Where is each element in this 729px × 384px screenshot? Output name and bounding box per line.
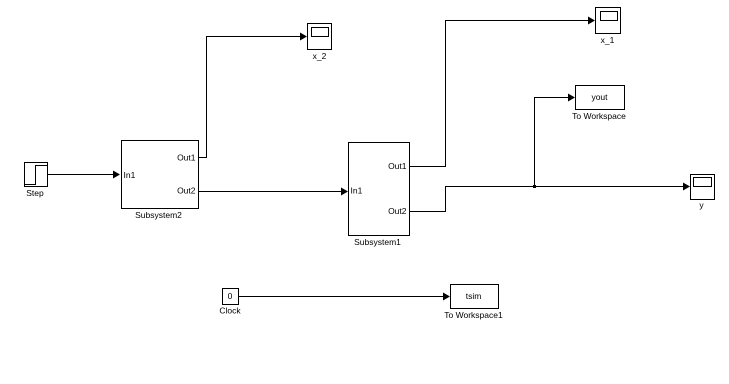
block scope x_2: [308, 24, 332, 50]
wire Subsystem1 Out1 to scope x_1: [409, 17, 595, 167]
pin Out1 of Subsystem2: [177, 153, 196, 163]
block tsim To Workspace1: [451, 285, 499, 309]
label To Workspace: [572, 111, 626, 121]
svg-text:tsim: tsim: [466, 291, 482, 301]
pin In1 of Subsystem1: [351, 186, 363, 196]
label Step: [26, 188, 44, 198]
svg-text:Out1: Out1: [177, 153, 196, 163]
block yout To Workspace: [576, 86, 625, 110]
svg-text:Step: Step: [26, 188, 44, 198]
block scope y: [691, 175, 715, 200]
block Clock: [223, 289, 239, 305]
svg-text:To Workspace1: To Workspace1: [444, 310, 503, 320]
pin In1 of Subsystem2: [124, 170, 136, 180]
label To Workspace1: [444, 310, 503, 320]
svg-text:Out2: Out2: [177, 186, 196, 196]
svg-text:0: 0: [228, 291, 233, 301]
svg-text:Out2: Out2: [388, 206, 407, 216]
wire Clock to tsim: [239, 293, 450, 301]
pin Out2 of Subsystem2: [177, 186, 196, 196]
svg-text:yout: yout: [591, 92, 608, 102]
svg-text:x_1: x_1: [601, 35, 615, 45]
svg-text:Subsystem2: Subsystem2: [135, 210, 182, 220]
pin Out1 of Subsystem1: [388, 161, 407, 171]
block Step: [25, 163, 48, 187]
svg-text:Clock: Clock: [219, 306, 241, 316]
block Subsystem2: [122, 141, 199, 209]
svg-text:Subsystem1: Subsystem1: [354, 237, 401, 247]
block scope x_1: [596, 8, 621, 34]
block Subsystem1: [349, 143, 410, 236]
pin Out2 of Subsystem1: [388, 206, 407, 216]
label Subsystem1: [354, 237, 401, 247]
wire Step to Subsystem2 In1: [47, 171, 120, 179]
svg-text:Out1: Out1: [388, 161, 407, 171]
wire Subsystem2 Out1 to scope x_2: [198, 33, 307, 158]
wire junction to yout: [535, 94, 576, 187]
svg-text:x_2: x_2: [313, 51, 327, 61]
wire Subsystem1 Out2 to scope y: [409, 183, 690, 212]
label Clock: [219, 306, 241, 316]
junction on Out2 wire: [533, 185, 536, 188]
svg-text:In1: In1: [351, 186, 363, 196]
svg-text:To Workspace: To Workspace: [572, 111, 626, 121]
label x_1: [601, 35, 615, 45]
svg-text:y: y: [699, 200, 704, 210]
label x_2: [313, 51, 327, 61]
wire Subsystem2 Out2 to Subsystem1 In1: [198, 188, 348, 196]
svg-text:In1: In1: [124, 170, 136, 180]
label Subsystem2: [135, 210, 182, 220]
label y: [699, 200, 704, 210]
